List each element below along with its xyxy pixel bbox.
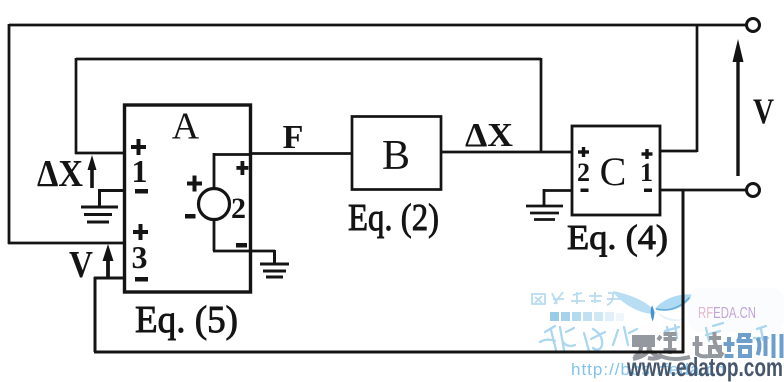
block B xyxy=(352,117,441,190)
port 1 plus xyxy=(131,139,146,155)
port 2 source plus xyxy=(187,176,202,192)
watermark text 培训 (blue) xyxy=(724,334,782,358)
svg-text:V: V xyxy=(69,244,93,286)
svg-text:3: 3 xyxy=(132,239,148,275)
wire outer feedback left xyxy=(8,24,11,244)
wire inner feedback left xyxy=(75,58,78,154)
wire dX xyxy=(441,151,573,154)
watermark text 网友上传于 xyxy=(532,292,621,305)
terminal output plus xyxy=(747,19,760,32)
svg-text:C: C xyxy=(600,149,627,194)
wire feedback left up xyxy=(94,277,97,352)
wire into port 1 xyxy=(75,152,125,155)
wire loop top xyxy=(213,153,251,156)
C port 1 minus xyxy=(644,189,652,193)
svg-text:Eq. (2): Eq. (2) xyxy=(348,197,439,239)
terminal output minus xyxy=(747,184,760,197)
svg-text:2: 2 xyxy=(577,158,590,187)
svg-text:1: 1 xyxy=(132,153,148,189)
port 2 terminal plus xyxy=(236,161,248,175)
watermark script 微波仿真论坛 xyxy=(540,323,768,351)
svg-text:F: F xyxy=(283,119,304,156)
wire C port 1 out xyxy=(660,24,697,152)
port 3 minus xyxy=(135,277,148,282)
arrow V input xyxy=(103,244,114,278)
wire inner feedback top xyxy=(76,58,541,61)
port 1 minus xyxy=(135,189,148,194)
wire feedback right down xyxy=(682,190,685,353)
svg-text:Eq. (5): Eq. (5) xyxy=(135,299,238,341)
watermark text 易迪拓 (grey) xyxy=(633,332,724,359)
wire F xyxy=(251,152,353,155)
svg-text:V: V xyxy=(753,91,774,131)
wire source top xyxy=(213,153,216,190)
port 2 source minus xyxy=(185,214,196,219)
wire outer feedback into port 3 xyxy=(8,242,125,245)
block C xyxy=(572,126,660,215)
watermark plate xyxy=(688,288,784,332)
svg-text:ΔX: ΔX xyxy=(37,153,83,195)
source circle port 2 xyxy=(199,189,230,220)
port 3 plus xyxy=(133,224,148,240)
wire C minus to terminal xyxy=(660,189,746,192)
wire loop bottom to ground xyxy=(213,250,275,253)
ground at port 2 xyxy=(260,250,289,277)
C port 2 plus xyxy=(578,147,589,157)
svg-text:www.edatop.com: www.edatop.com xyxy=(626,352,783,382)
wire source bottom xyxy=(213,218,216,251)
port 2 terminal minus xyxy=(236,243,247,248)
C port 1 plus xyxy=(642,149,653,159)
wire outer feedback top xyxy=(9,24,746,27)
block A xyxy=(125,105,251,292)
wire feedback bottom xyxy=(94,351,684,354)
svg-text:B: B xyxy=(382,133,410,179)
ground at port 1 xyxy=(81,189,125,222)
svg-text:Eq. (4): Eq. (4) xyxy=(567,218,668,257)
watermark squares row xyxy=(550,312,624,321)
svg-text:1: 1 xyxy=(640,158,653,187)
ground at C port 2 xyxy=(526,189,572,220)
svg-text:A: A xyxy=(172,106,200,148)
svg-text:RFEDA.CN: RFEDA.CN xyxy=(698,305,756,322)
wire into port 3 minus xyxy=(94,277,125,280)
svg-text:ΔX: ΔX xyxy=(465,117,513,154)
watermark bird logo xyxy=(613,291,692,322)
svg-text:2: 2 xyxy=(231,192,246,225)
arrow V output xyxy=(733,39,744,176)
C port 2 minus xyxy=(581,189,589,193)
wire inner feedback right tap xyxy=(540,58,543,152)
arrow dX input xyxy=(88,155,97,188)
